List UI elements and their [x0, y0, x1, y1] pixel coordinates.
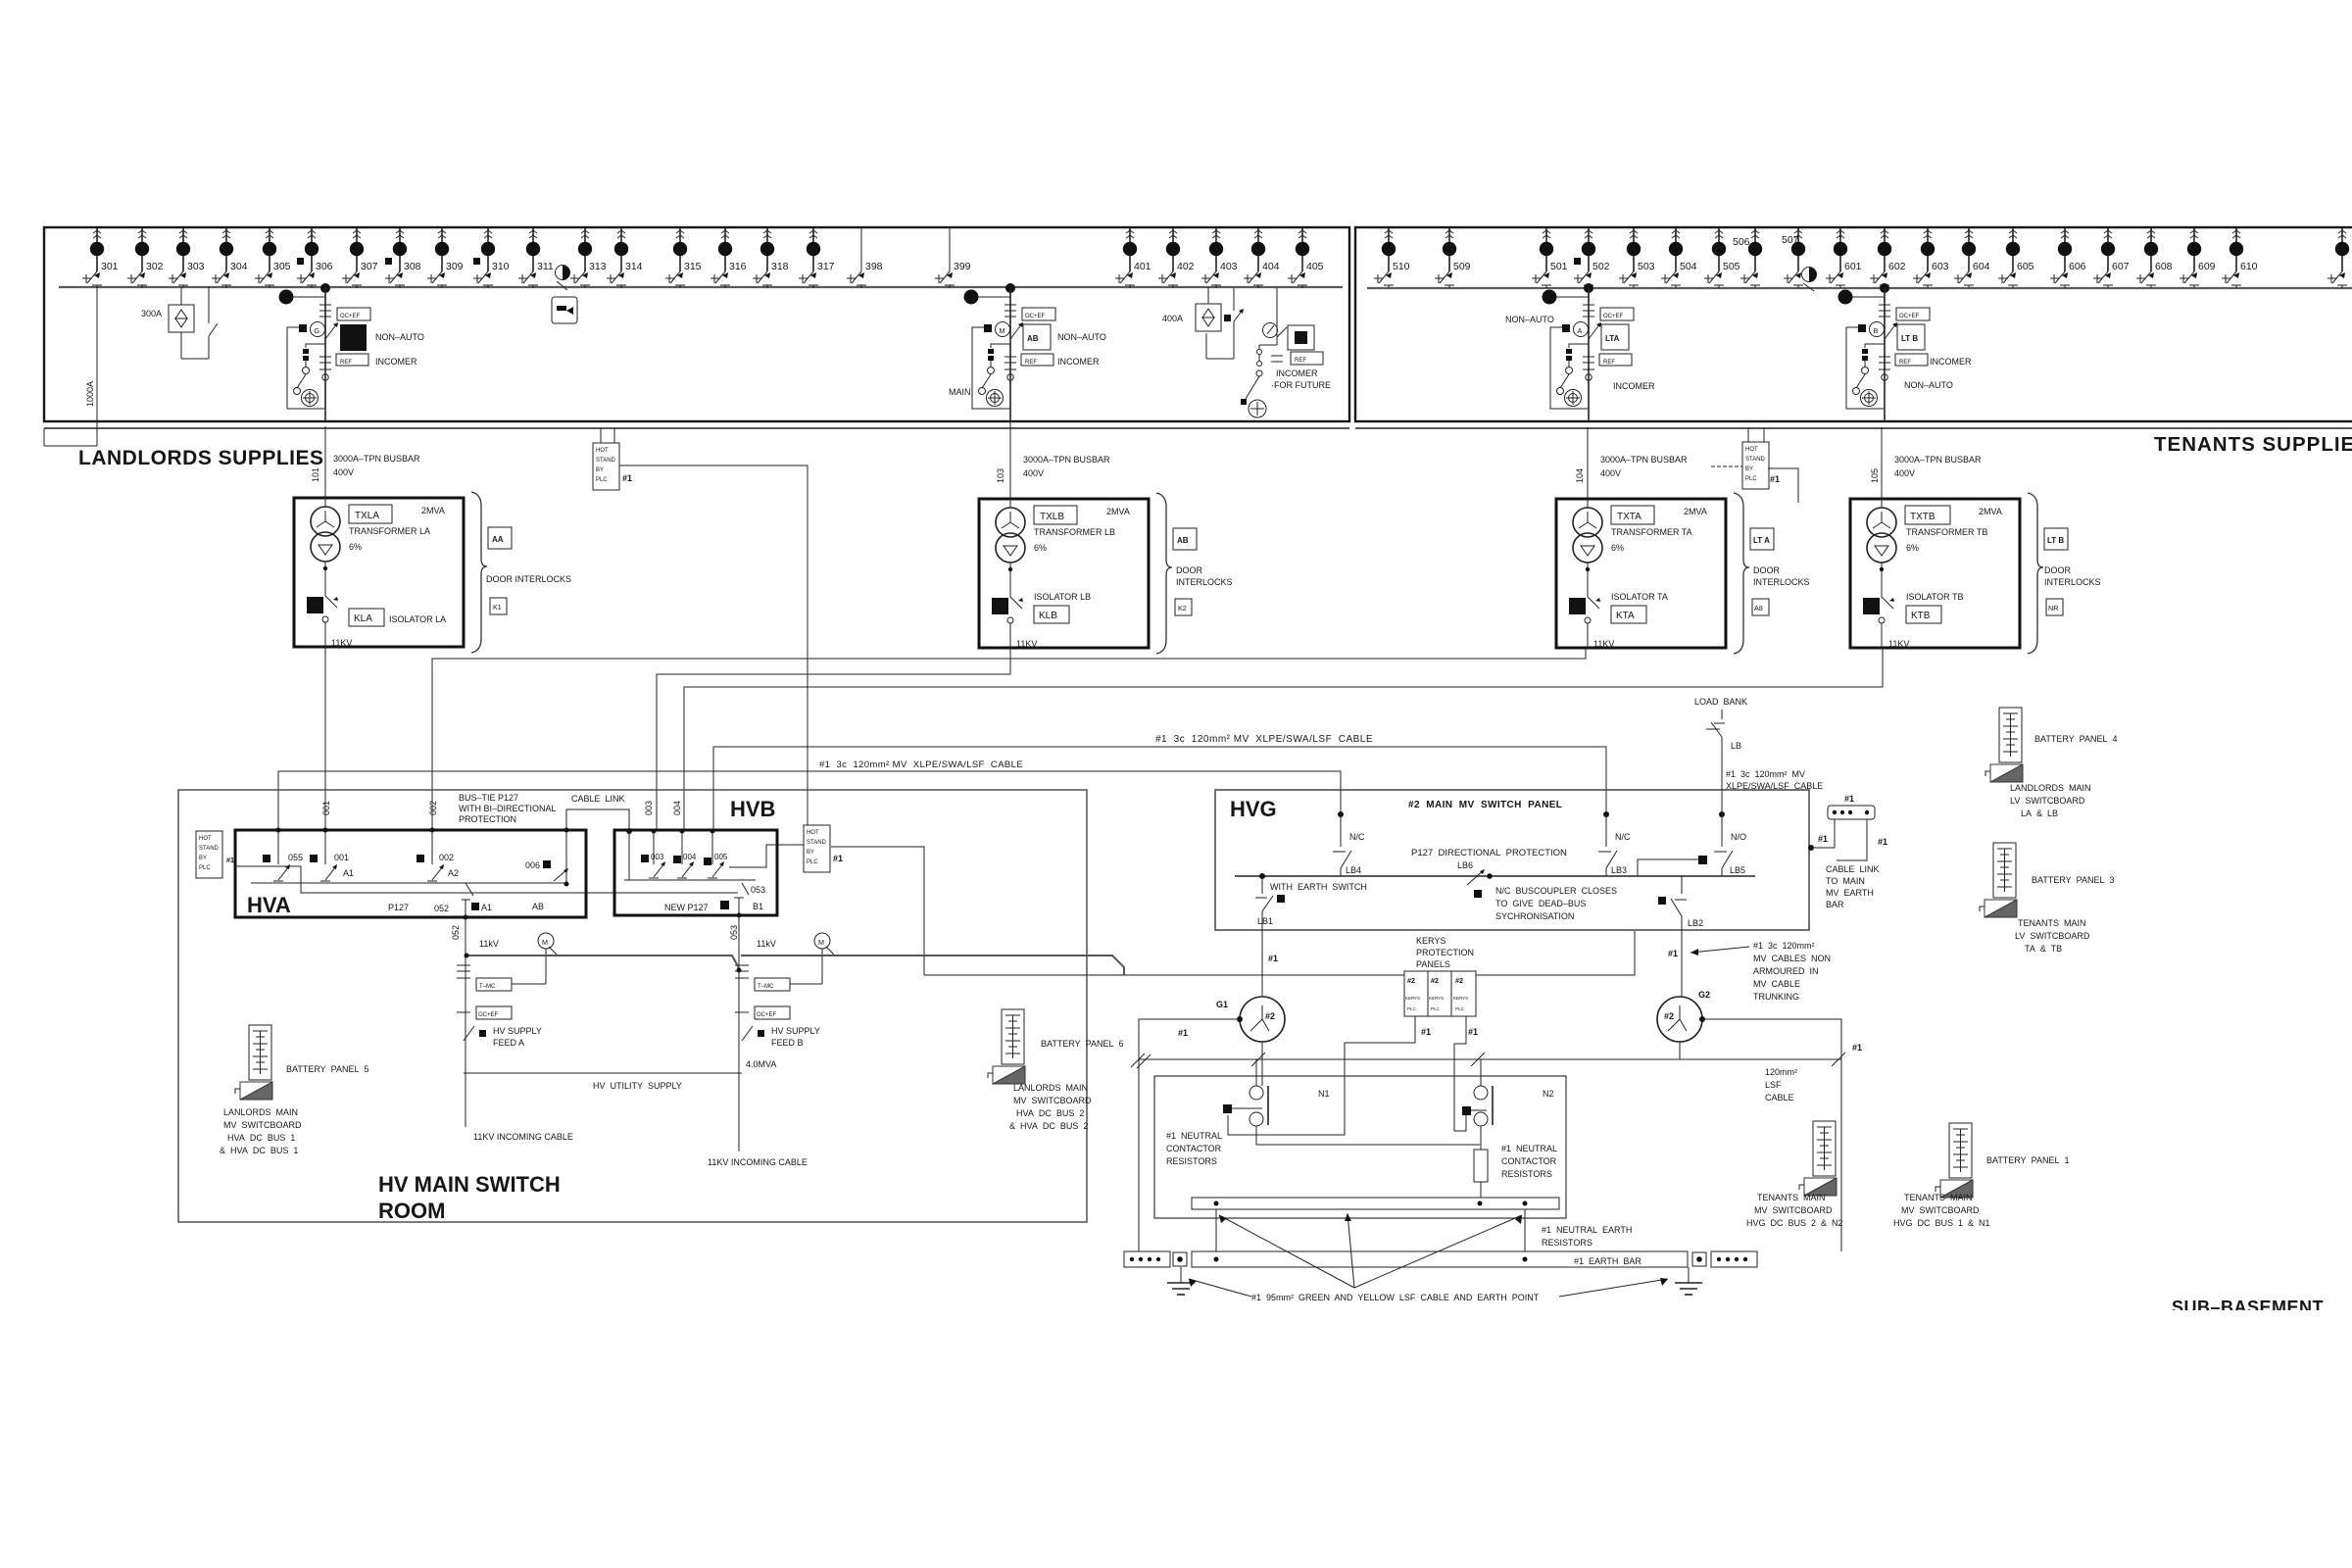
svg-text:KTA: KTA — [1616, 611, 1635, 621]
svg-text:3000A–TPN BUSBAR: 3000A–TPN BUSBAR — [1023, 455, 1110, 465]
svg-text:#2: #2 — [1407, 976, 1415, 985]
svg-text:001: 001 — [321, 801, 331, 815]
svg-text:A: A — [1578, 326, 1583, 335]
svg-text:101: 101 — [311, 467, 320, 482]
svg-text:HV SUPPLY: HV SUPPLY — [771, 1026, 820, 1036]
svg-text:#1: #1 — [1421, 1027, 1431, 1037]
svg-text:316: 316 — [729, 261, 747, 272]
svg-text:318: 318 — [771, 261, 789, 272]
svg-text:KERYS: KERYS — [1453, 996, 1468, 1001]
svg-text:403: 403 — [1220, 261, 1238, 272]
svg-text:MV SWITCBOARD: MV SWITCBOARD — [1013, 1096, 1092, 1105]
svg-text:LV SWITCBOARD: LV SWITCBOARD — [2010, 796, 2085, 806]
svg-text:#1: #1 — [1468, 1027, 1478, 1037]
svg-text:11KV: 11KV — [1593, 639, 1614, 649]
svg-text:REF: REF — [340, 360, 352, 366]
svg-text:317: 317 — [817, 261, 835, 272]
svg-text:11kV: 11kV — [757, 939, 776, 949]
svg-text:#1: #1 — [1844, 794, 1854, 804]
svg-text:602: 602 — [1888, 261, 1906, 272]
svg-text:052: 052 — [451, 925, 461, 940]
svg-text:OC+EF: OC+EF — [340, 314, 361, 319]
svg-text:HV SUPPLY: HV SUPPLY — [493, 1026, 542, 1036]
svg-text:303: 303 — [187, 261, 205, 272]
svg-text:004: 004 — [672, 801, 682, 815]
svg-text:N/C: N/C — [1349, 832, 1365, 842]
svg-text:INCOMER: INCOMER — [1057, 357, 1100, 367]
svg-text:3000A–TPN BUSBAR: 3000A–TPN BUSBAR — [1600, 455, 1688, 465]
svg-text:T–MC: T–MC — [758, 984, 774, 990]
svg-text:·FOR FUTURE: ·FOR FUTURE — [1271, 380, 1331, 390]
svg-text:1000A: 1000A — [85, 381, 95, 407]
svg-text:NON–AUTO: NON–AUTO — [1904, 380, 1953, 390]
svg-text:PLC: PLC — [1407, 1006, 1417, 1011]
svg-text:#1: #1 — [1668, 949, 1678, 958]
svg-text:T–MC: T–MC — [479, 984, 496, 990]
svg-text:HVG: HVG — [1230, 797, 1277, 821]
svg-text:LB4: LB4 — [1346, 865, 1361, 875]
svg-text:#1: #1 — [1178, 1028, 1188, 1038]
svg-text:400A: 400A — [1162, 314, 1183, 323]
svg-text:KLB: KLB — [1039, 611, 1057, 621]
svg-text:LA & LB: LA & LB — [2021, 808, 2058, 818]
svg-text:ARMOURED IN: ARMOURED IN — [1753, 966, 1819, 976]
svg-text:PLC: PLC — [1431, 1006, 1441, 1011]
svg-text:INTERLOCKS: INTERLOCKS — [2044, 577, 2101, 587]
svg-text:CABLE LINK: CABLE LINK — [571, 794, 625, 804]
svg-text:509: 509 — [1453, 261, 1471, 272]
svg-text:INCOMER: INCOMER — [1613, 381, 1655, 391]
svg-text:302: 302 — [146, 261, 164, 272]
svg-text:TXLB: TXLB — [1040, 512, 1064, 522]
svg-text:6%: 6% — [1611, 543, 1624, 553]
svg-text:308: 308 — [404, 261, 421, 272]
svg-text:OC+EF: OC+EF — [1899, 314, 1920, 319]
svg-text:609: 609 — [2198, 261, 2216, 272]
svg-text:HVA DC BUS 1: HVA DC BUS 1 — [227, 1133, 295, 1143]
svg-text:NON–AUTO: NON–AUTO — [1505, 315, 1554, 324]
svg-text:N/O: N/O — [1731, 832, 1746, 842]
svg-text:2MVA: 2MVA — [1684, 507, 1707, 516]
svg-text:053: 053 — [751, 885, 765, 895]
svg-text:6%: 6% — [349, 542, 362, 552]
svg-text:TRANSFORMER TB: TRANSFORMER TB — [1906, 527, 1987, 537]
svg-text:313: 313 — [589, 261, 607, 272]
svg-text:ROOM: ROOM — [378, 1199, 445, 1223]
svg-text:LANDLORDS SUPPLIES: LANDLORDS SUPPLIES — [78, 447, 324, 469]
svg-text:XLPE/SWA/LSF CABLE: XLPE/SWA/LSF CABLE — [1726, 781, 1823, 791]
svg-text:404: 404 — [1262, 261, 1280, 272]
svg-text:TRANSFORMER TA: TRANSFORMER TA — [1611, 527, 1692, 537]
svg-text:A1: A1 — [481, 903, 492, 912]
svg-text:104: 104 — [1575, 468, 1585, 483]
svg-text:606: 606 — [2069, 261, 2086, 272]
svg-text:RESISTORS: RESISTORS — [1501, 1169, 1552, 1179]
svg-text:405: 405 — [1306, 261, 1324, 272]
svg-text:OC+EF: OC+EF — [757, 1012, 777, 1018]
svg-text:CABLE LINK: CABLE LINK — [1826, 864, 1880, 874]
svg-text:REF: REF — [1025, 360, 1037, 366]
svg-text:005: 005 — [714, 853, 728, 861]
svg-text:N1: N1 — [1318, 1089, 1330, 1099]
svg-text:KTB: KTB — [1911, 611, 1931, 621]
svg-text:ISOLATOR LB: ISOLATOR LB — [1034, 592, 1091, 602]
svg-text:AB: AB — [1177, 536, 1189, 545]
svg-text:B1: B1 — [753, 902, 763, 911]
svg-text:LT A: LT A — [1753, 536, 1770, 545]
svg-text:OC+EF: OC+EF — [1025, 314, 1046, 319]
svg-text:401: 401 — [1134, 261, 1151, 272]
svg-text:G2: G2 — [1698, 990, 1710, 1000]
svg-text:003: 003 — [644, 801, 654, 815]
svg-text:#2: #2 — [1431, 976, 1439, 985]
svg-text:HVA: HVA — [247, 893, 291, 917]
svg-text:RESISTORS: RESISTORS — [1542, 1238, 1592, 1248]
svg-text:#1 95mm² GREEN AND YELLOW: #1 95mm² GREEN AND YELLOW LSF CABLE AND … — [1251, 1293, 1540, 1302]
svg-text:DOOR INTERLOCKS: DOOR INTERLOCKS — [486, 574, 571, 584]
svg-text:#1: #1 — [1818, 834, 1828, 844]
svg-text:LTA: LTA — [1605, 334, 1620, 343]
svg-text:002: 002 — [439, 853, 454, 862]
svg-text:& HVA DC BUS 1: & HVA DC BUS 1 — [220, 1146, 298, 1155]
svg-text:400V: 400V — [1600, 468, 1621, 478]
svg-text:#1 NEUTRAL: #1 NEUTRAL — [1501, 1144, 1557, 1153]
svg-text:LB2: LB2 — [1688, 918, 1703, 928]
svg-text:INTERLOCKS: INTERLOCKS — [1176, 577, 1233, 587]
svg-text:#1: #1 — [1878, 837, 1887, 847]
svg-text:#1: #1 — [226, 856, 234, 864]
svg-text:6%: 6% — [1034, 543, 1047, 553]
svg-text:TXLA: TXLA — [355, 511, 379, 521]
svg-text:KERYS: KERYS — [1429, 996, 1444, 1001]
svg-text:MV SWITCBOARD: MV SWITCBOARD — [1754, 1205, 1833, 1215]
svg-text:#2: #2 — [1455, 976, 1463, 985]
svg-text:BATTERY PANEL 6: BATTERY PANEL 6 — [1041, 1039, 1124, 1049]
svg-text:TENANTS MAIN: TENANTS MAIN — [1757, 1193, 1826, 1202]
svg-text:11KV: 11KV — [1888, 639, 1909, 649]
svg-text:TENANTS SUPPLIES: TENANTS SUPPLIES — [2154, 433, 2352, 456]
svg-text:3000A–TPN BUSBAR: 3000A–TPN BUSBAR — [1894, 455, 1982, 465]
svg-text:AB: AB — [1027, 334, 1039, 343]
svg-text:399: 399 — [954, 261, 971, 272]
svg-text:311: 311 — [537, 261, 554, 272]
svg-text:P127: P127 — [388, 903, 409, 912]
svg-text:504: 504 — [1680, 261, 1697, 272]
svg-text:A8: A8 — [1754, 604, 1763, 612]
svg-text:MV CABLE: MV CABLE — [1753, 979, 1800, 989]
svg-text:N2: N2 — [1543, 1089, 1554, 1099]
svg-text:304: 304 — [230, 261, 248, 272]
svg-text:11kV: 11kV — [479, 939, 499, 949]
svg-text:BATTERY PANEL 1: BATTERY PANEL 1 — [1986, 1155, 2070, 1165]
svg-text:PANELS: PANELS — [1416, 959, 1450, 969]
svg-text:REF: REF — [1899, 360, 1911, 366]
svg-text:103: 103 — [996, 468, 1005, 483]
svg-text:LT B: LT B — [1901, 334, 1918, 343]
svg-text:400V: 400V — [1894, 468, 1915, 478]
svg-text:501: 501 — [1550, 261, 1568, 272]
svg-text:LSF: LSF — [1765, 1080, 1782, 1090]
svg-text:506: 506 — [1733, 236, 1750, 248]
svg-text:#1 NEUTRAL: #1 NEUTRAL — [1166, 1131, 1222, 1141]
svg-text:NON–AUTO: NON–AUTO — [1057, 332, 1106, 342]
svg-text:507: 507 — [1782, 234, 1799, 246]
svg-text:002: 002 — [428, 801, 438, 815]
svg-text:LT B: LT B — [2047, 536, 2064, 545]
svg-text:BAR: BAR — [1826, 900, 1844, 909]
svg-text:#1: #1 — [1770, 474, 1780, 484]
svg-text:TXTB: TXTB — [1910, 512, 1935, 522]
svg-text:TENANTS MAIN: TENANTS MAIN — [1904, 1193, 1973, 1202]
svg-text:006: 006 — [525, 860, 540, 870]
svg-text:KERYS: KERYS — [1405, 996, 1420, 1001]
svg-text:FEED B: FEED B — [771, 1038, 804, 1048]
svg-text:LANLORDS MAIN: LANLORDS MAIN — [1013, 1083, 1088, 1093]
svg-text:TRUNKING: TRUNKING — [1753, 992, 1799, 1002]
svg-text:300A: 300A — [141, 309, 162, 318]
svg-text:B: B — [1874, 326, 1879, 335]
svg-text:#1 EARTH BAR: #1 EARTH BAR — [1574, 1256, 1641, 1266]
svg-text:K2: K2 — [1178, 604, 1187, 612]
svg-text:BATTERY PANEL 4: BATTERY PANEL 4 — [2034, 734, 2118, 744]
svg-text:WITH EARTH SWITCH: WITH EARTH SWITCH — [1270, 882, 1367, 892]
svg-text:REF: REF — [1295, 358, 1306, 364]
svg-text:#1: #1 — [1852, 1043, 1862, 1053]
svg-text:HV UTILITY SUPPLY: HV UTILITY SUPPLY — [593, 1081, 682, 1091]
svg-text:& HVA DC BUS 2: & HVA DC BUS 2 — [1009, 1121, 1088, 1131]
svg-text:11KV: 11KV — [1016, 639, 1037, 649]
svg-text:N/C: N/C — [1615, 832, 1631, 842]
svg-text:105: 105 — [1870, 468, 1880, 483]
svg-text:TO GIVE DEAD–BUS: TO GIVE DEAD–BUS — [1495, 899, 1586, 908]
svg-text:HVA DC BUS 2: HVA DC BUS 2 — [1016, 1108, 1084, 1118]
svg-text:DOOR: DOOR — [2044, 565, 2072, 575]
svg-text:N/C BUSCOUPLER CLOSES: N/C BUSCOUPLER CLOSES — [1495, 886, 1617, 896]
svg-text:REF: REF — [1603, 360, 1615, 366]
svg-text:HVG DC BUS 2 & N2: HVG DC BUS 2 & N2 — [1746, 1218, 1843, 1228]
svg-text:ISOLATOR TB: ISOLATOR TB — [1906, 592, 1964, 602]
svg-text:610: 610 — [2240, 261, 2258, 272]
svg-text:11KV INCOMING CABLE: 11KV INCOMING CABLE — [708, 1157, 808, 1167]
svg-text:LANLORDS MAIN: LANLORDS MAIN — [223, 1107, 298, 1117]
svg-text:11KV: 11KV — [331, 638, 352, 648]
svg-text:LOAD BANK: LOAD BANK — [1694, 697, 1747, 707]
svg-text:#1 3c 120mm²: #1 3c 120mm² — [1753, 941, 1815, 951]
svg-text:510: 510 — [1393, 261, 1410, 272]
svg-text:307: 307 — [361, 261, 378, 272]
svg-text:A2: A2 — [448, 868, 459, 878]
svg-text:306: 306 — [316, 261, 333, 272]
svg-text:BATTERY PANEL 5: BATTERY PANEL 5 — [286, 1064, 369, 1074]
svg-text:601: 601 — [1844, 261, 1862, 272]
svg-text:PROTECTION: PROTECTION — [459, 814, 516, 824]
svg-text:G: G — [315, 326, 320, 335]
svg-text:315: 315 — [684, 261, 702, 272]
svg-text:052: 052 — [434, 904, 449, 913]
svg-text:TRANSFORMER LA: TRANSFORMER LA — [349, 526, 430, 536]
svg-text:HV MAIN SWITCH: HV MAIN SWITCH — [378, 1172, 561, 1197]
svg-text:A1: A1 — [343, 868, 354, 878]
svg-text:OC+EF: OC+EF — [478, 1012, 499, 1018]
svg-text:MV CABLES NON: MV CABLES NON — [1753, 954, 1831, 963]
svg-text:INCOMER: INCOMER — [1930, 357, 1972, 367]
svg-text:TRANSFORMER LB: TRANSFORMER LB — [1034, 527, 1115, 537]
svg-text:M: M — [818, 938, 824, 947]
svg-text:TA & TB: TA & TB — [2025, 944, 2062, 954]
svg-text:3000A–TPN BUSBAR: 3000A–TPN BUSBAR — [333, 454, 420, 464]
svg-text:608: 608 — [2155, 261, 2173, 272]
svg-text:ISOLATOR LA: ISOLATOR LA — [389, 614, 446, 624]
svg-text:MV SWITCBOARD: MV SWITCBOARD — [223, 1120, 302, 1130]
svg-text:BUS–TIE P127: BUS–TIE P127 — [459, 793, 518, 803]
svg-text:6%: 6% — [1906, 543, 1919, 553]
svg-text:305: 305 — [273, 261, 291, 272]
svg-text:LANDLORDS MAIN: LANDLORDS MAIN — [2010, 783, 2091, 793]
svg-text:314: 314 — [625, 261, 643, 272]
svg-text:#2: #2 — [1664, 1011, 1674, 1021]
svg-text:2MVA: 2MVA — [1979, 507, 2002, 516]
svg-text:MV SWITCBOARD: MV SWITCBOARD — [1901, 1205, 1980, 1215]
svg-text:DOOR: DOOR — [1176, 565, 1203, 575]
svg-text:BATTERY PANEL 3: BATTERY PANEL 3 — [2032, 875, 2115, 885]
svg-text:DOOR: DOOR — [1753, 565, 1781, 575]
svg-text:503: 503 — [1638, 261, 1655, 272]
svg-text:LV SWITCBOARD: LV SWITCBOARD — [2015, 931, 2090, 941]
svg-text:310: 310 — [492, 261, 510, 272]
svg-text:ISOLATOR TA: ISOLATOR TA — [1611, 592, 1668, 602]
svg-text:#1: #1 — [833, 854, 843, 863]
svg-text:AA: AA — [492, 535, 504, 544]
svg-text:CONTACTOR: CONTACTOR — [1166, 1144, 1222, 1153]
svg-text:#1: #1 — [1268, 954, 1278, 963]
svg-text:603: 603 — [1932, 261, 1949, 272]
svg-text:LB: LB — [1731, 741, 1741, 751]
svg-text:LB1: LB1 — [1257, 916, 1273, 926]
svg-text:TO MAIN: TO MAIN — [1826, 876, 1865, 886]
svg-text:M: M — [542, 938, 548, 947]
svg-text:605: 605 — [2017, 261, 2034, 272]
svg-text:004: 004 — [683, 853, 697, 861]
svg-text:INCOMER: INCOMER — [375, 357, 417, 367]
svg-text:LB3: LB3 — [1611, 865, 1627, 875]
svg-text:INCOMER: INCOMER — [1276, 368, 1318, 378]
svg-text:#1 3c 120mm² MV XLPE/SWA/LS: #1 3c 120mm² MV XLPE/SWA/LSF CABLE — [819, 759, 1023, 770]
svg-text:TENANTS MAIN: TENANTS MAIN — [2018, 918, 2086, 928]
svg-text:604: 604 — [1973, 261, 1990, 272]
svg-text:#1 3c 120mm² MV XLPE/SWA/LS: #1 3c 120mm² MV XLPE/SWA/LSF CABLE — [1155, 734, 1373, 745]
svg-text:P127 DIRECTIONAL PROTECTION: P127 DIRECTIONAL PROTECTION — [1411, 848, 1567, 858]
svg-text:053: 053 — [729, 925, 739, 940]
svg-text:PLC: PLC — [1455, 1006, 1465, 1011]
svg-text:KERYS: KERYS — [1416, 936, 1445, 946]
svg-text:NON–AUTO: NON–AUTO — [375, 332, 424, 342]
svg-text:MV EARTH: MV EARTH — [1826, 888, 1874, 898]
svg-text:402: 402 — [1177, 261, 1195, 272]
svg-text:502: 502 — [1592, 261, 1610, 272]
svg-text:NEW P127: NEW P127 — [664, 903, 709, 912]
svg-text:RESISTORS: RESISTORS — [1166, 1156, 1217, 1166]
svg-text:001: 001 — [334, 853, 349, 862]
svg-text:CONTACTOR: CONTACTOR — [1501, 1156, 1557, 1166]
svg-text:398: 398 — [865, 261, 883, 272]
svg-text:NR: NR — [2048, 604, 2058, 612]
svg-text:K1: K1 — [493, 603, 502, 612]
svg-text:LB5: LB5 — [1730, 865, 1745, 875]
svg-text:G1: G1 — [1216, 1000, 1228, 1009]
svg-text:#1: #1 — [622, 473, 632, 483]
svg-text:505: 505 — [1723, 261, 1740, 272]
svg-text:CABLE: CABLE — [1765, 1093, 1794, 1102]
svg-text:#1 NEUTRAL EARTH: #1 NEUTRAL EARTH — [1542, 1225, 1632, 1235]
svg-text:400V: 400V — [1023, 468, 1044, 478]
svg-text:PROTECTION: PROTECTION — [1416, 948, 1474, 957]
svg-text:309: 309 — [446, 261, 464, 272]
svg-text:INTERLOCKS: INTERLOCKS — [1753, 577, 1810, 587]
svg-text:4.0MVA: 4.0MVA — [746, 1059, 776, 1069]
svg-text:HVG DC BUS 1 & N1: HVG DC BUS 1 & N1 — [1893, 1218, 1990, 1228]
svg-text:301: 301 — [101, 261, 119, 272]
svg-text:TXTA: TXTA — [1617, 512, 1641, 522]
svg-text:SYCHRONISATION: SYCHRONISATION — [1495, 911, 1574, 921]
svg-text:2MVA: 2MVA — [1106, 507, 1130, 516]
svg-text:FEED A: FEED A — [493, 1038, 524, 1048]
svg-text:#2: #2 — [1265, 1011, 1275, 1021]
svg-text:HVB: HVB — [730, 797, 775, 821]
svg-text:AB: AB — [532, 902, 544, 911]
svg-text:M: M — [1000, 326, 1005, 335]
svg-text:607: 607 — [2112, 261, 2130, 272]
svg-text:OC+EF: OC+EF — [1603, 314, 1624, 319]
svg-text:KLA: KLA — [354, 613, 372, 624]
svg-text:LB6: LB6 — [1457, 860, 1473, 870]
svg-text:120mm²: 120mm² — [1765, 1067, 1797, 1077]
svg-text:MAIN: MAIN — [949, 387, 971, 397]
svg-text:11KV INCOMING CABLE: 11KV INCOMING CABLE — [473, 1132, 573, 1142]
svg-text:#2 MAIN MV SWITCH PANEL: #2 MAIN MV SWITCH PANEL — [1408, 800, 1562, 810]
svg-text:400V: 400V — [333, 467, 354, 477]
svg-text:WITH BI–DIRECTIONAL: WITH BI–DIRECTIONAL — [459, 804, 557, 813]
svg-text:2MVA: 2MVA — [421, 506, 445, 515]
svg-text:003: 003 — [651, 853, 664, 861]
svg-text:#1 3c 120mm² MV: #1 3c 120mm² MV — [1726, 769, 1805, 779]
svg-text:055: 055 — [288, 853, 303, 862]
